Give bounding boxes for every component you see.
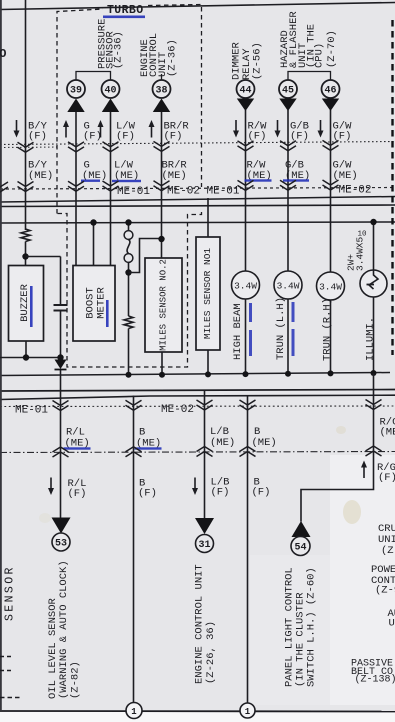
flow arrow down R/W — [233, 120, 239, 138]
label B (F) right — [252, 477, 271, 499]
buzzer box — [9, 266, 44, 342]
svg-text:TRUN (L.H): TRUN (L.H) — [275, 297, 287, 360]
svg-text:45: 45 — [282, 86, 294, 97]
chevron R/L sheet — [53, 447, 69, 457]
TURBO dashed enclosure — [57, 5, 202, 368]
dotted harness boundary lower — [0, 405, 395, 408]
svg-text:38: 38 — [155, 86, 167, 97]
arrowhead down to 31 — [195, 518, 214, 534]
svg-text:(Z-56): (Z-56) — [252, 42, 264, 80]
svg-text:SENSOR: SENSOR — [4, 565, 17, 621]
label BOOST METER — [85, 287, 108, 319]
svg-text:ME-01: ME-01 — [117, 186, 150, 198]
label L/B (F) — [211, 477, 230, 499]
chevron R/G sheet — [366, 446, 382, 456]
wire BR/R vertical — [161, 110, 163, 258]
pressure sensor bracket — [76, 72, 111, 81]
label G (ME) — [82, 160, 107, 183]
svg-text:ILLUMI.: ILLUMI. — [364, 317, 376, 361]
arrowhead up to 54 — [292, 521, 311, 537]
chevron B-left sheet — [126, 447, 142, 457]
label R/W (F) — [248, 121, 268, 143]
svg-text:(ME): (ME) — [252, 437, 277, 449]
svg-text:TO: TO — [0, 47, 6, 61]
resistor R2 — [124, 316, 133, 328]
node turn rh bus junction — [328, 370, 334, 376]
svg-text:(F): (F) — [378, 472, 395, 484]
svg-text:31: 31 — [198, 540, 210, 551]
boost meter box — [73, 266, 115, 342]
connector circle 38 — [153, 80, 171, 98]
wire buzzer bottom lead — [25, 341, 27, 358]
ECU stub — [161, 74, 163, 80]
capacitor C — [54, 304, 68, 306]
dashed harness boundary ME-01/ME-02 top — [0, 188, 395, 190]
arrowhead down G/B — [279, 99, 296, 112]
right dashed page-joint line — [391, 20, 393, 355]
label R/L (ME) — [65, 427, 90, 450]
flow arrow up R/G — [361, 461, 367, 479]
chevron BR/R at harness boundary — [154, 181, 170, 191]
label HAZARD & FLASHER UNIT (IN THE CPU) (Z-70) — [279, 11, 338, 68]
label G (F) — [83, 121, 102, 143]
svg-text:(F): (F) — [164, 131, 183, 143]
wire R/G vertical and bend — [301, 373, 374, 522]
svg-text:54: 54 — [294, 543, 306, 554]
chevron left edge at harness boundary — [0, 182, 8, 192]
hazard unit bracket — [288, 72, 331, 81]
left page edge line — [0, 0, 2, 711]
connector circle 44 — [237, 80, 255, 98]
svg-text:(WARNING & AUTO CLOCK): (WARNING & AUTO CLOCK) — [58, 560, 70, 699]
label OIL LEVEL SENSOR (WARNING & AUTO CLOCK) (Z-82) — [47, 560, 82, 699]
node switch feed on L3 — [125, 219, 131, 225]
miles sensor no.2 box — [145, 258, 182, 352]
svg-text:(Z-36): (Z-36) — [113, 31, 125, 69]
svg-text:3.4WX5: 3.4WX5 — [355, 236, 366, 271]
label BR/R (ME) — [162, 160, 188, 183]
label ENGINE CONTROL UNIT (Z-26, 36) — [194, 564, 218, 684]
label B/Y (F) — [28, 121, 48, 143]
svg-text:ENGINE CONTROL UNIT: ENGINE CONTROL UNIT — [194, 564, 206, 684]
svg-text:(F): (F) — [333, 131, 352, 143]
svg-text:(F): (F) — [248, 131, 267, 143]
label PANEL LIGHT CONTROL (IN THE CLUSTER SWITCH L.H.) (Z-60) — [284, 567, 318, 687]
label L/B (ME) — [210, 426, 235, 449]
blue underline BUZZER — [30, 286, 33, 327]
svg-text:METER: METER — [96, 287, 108, 319]
label B/Y (ME) — [28, 160, 53, 183]
wire sensor switch drop — [128, 223, 130, 231]
label PRESSURE SENSOR (Z-36) — [97, 19, 125, 69]
svg-text:(ME): (ME) — [28, 170, 53, 182]
svg-text:1: 1 — [245, 707, 251, 717]
node resistor bus junction — [126, 372, 132, 378]
svg-text:ME-01: ME-01 — [15, 405, 48, 417]
connector circle 40 — [102, 80, 120, 98]
blue underline L/W (ME) — [112, 180, 141, 182]
wire buzzer feed lower — [25, 242, 27, 266]
svg-text:(F): (F) — [211, 487, 230, 499]
arrowhead down G/W — [322, 99, 339, 112]
flow arrow down G/B — [275, 120, 281, 138]
wire capacitor top lead — [60, 257, 62, 305]
svg-text:3.4W: 3.4W — [234, 281, 257, 292]
wire G/B vertical — [287, 110, 289, 271]
svg-text:ME-02: ME-02 — [161, 404, 194, 416]
node switch bypass junction — [125, 269, 131, 275]
svg-text:(ME): (ME) — [210, 437, 235, 449]
arrowhead up G — [67, 99, 84, 113]
label DIMMER RELAY (Z-56) — [231, 41, 264, 80]
wire turn rh lamp to bus — [330, 300, 332, 373]
chevron R/W at F/ME boundary — [238, 141, 254, 151]
blue underline R/L (ME) — [64, 447, 91, 449]
svg-text:44: 44 — [239, 86, 251, 97]
svg-text:MILES SENSOR NO.2: MILES SENSOR NO.2 — [159, 259, 169, 351]
svg-text:(ME): (ME) — [333, 170, 358, 182]
wire high beam lamp to bus — [245, 299, 247, 374]
label G/B (ME) — [285, 160, 310, 183]
switch terminal bottom — [124, 254, 133, 263]
chevron R/G harness — [366, 400, 382, 410]
lamp ILLUMINATION — [360, 270, 387, 297]
node bypass to BR/R — [158, 236, 164, 242]
svg-text:SWITCH L.H.) (Z-60): SWITCH L.H.) (Z-60) — [306, 567, 318, 687]
blue underline B (ME) — [135, 447, 162, 449]
wire turn lh lamp to bus — [287, 299, 289, 374]
wire boost meter center feed — [93, 223, 95, 266]
top border line — [0, 3, 395, 10]
dash-dot boundary lower — [0, 452, 395, 453]
chevron B-right harness — [240, 400, 256, 410]
chevron L/B harness — [197, 400, 213, 410]
blue underline G (ME) — [81, 180, 100, 182]
wire B left vertical — [133, 396, 135, 704]
svg-text:BUZZER: BUZZER — [19, 283, 31, 322]
wire G/W vertical — [330, 110, 332, 272]
connector circle 46 — [322, 80, 340, 98]
lamp TURN LH 3.4W — [274, 271, 302, 299]
wire B right vertical — [247, 396, 249, 704]
wire L/B vertical — [204, 390, 206, 518]
connector circle 39 — [67, 80, 85, 98]
svg-text:ME-02: ME-02 — [339, 185, 372, 197]
label L/W (F) — [116, 121, 136, 143]
svg-text:(F): (F) — [83, 131, 102, 143]
flow arrow up L/W — [98, 120, 104, 138]
arrowhead up BR/R — [153, 99, 170, 113]
svg-text:(F): (F) — [28, 131, 47, 143]
wire capacitor bottom lead — [60, 311, 62, 358]
blue underline G/B (ME) — [283, 179, 309, 181]
svg-text:(F): (F) — [138, 488, 157, 500]
node miles no1 bus junction — [205, 371, 211, 377]
blue marks turn lh — [292, 302, 295, 322]
diode D — [55, 360, 67, 370]
connector circle 53 — [52, 533, 70, 551]
flow arrow down G/W — [318, 120, 324, 138]
blue underline TURBO — [103, 16, 145, 19]
horizontal bus line L1 — [0, 197, 395, 203]
label G/W (F) — [333, 121, 353, 143]
blue marks high beam — [249, 303, 252, 322]
svg-text:(F): (F) — [252, 487, 271, 499]
svg-text:(Z-70): (Z-70) — [326, 30, 338, 68]
node boost feed on L3 — [90, 219, 96, 225]
svg-text:10: 10 — [358, 231, 368, 239]
svg-text:CPU): CPU) — [313, 43, 325, 68]
chevron R/L harness — [53, 401, 69, 411]
ground circle 1 right — [240, 703, 255, 718]
node illumination feed on L3 — [370, 219, 376, 225]
label ENGINE CONTROL UNIT (Z-36) — [139, 33, 179, 77]
chevron G/W at harness boundary — [323, 180, 339, 190]
wire link to capacitor — [26, 256, 61, 258]
svg-text:(ME): (ME) — [162, 170, 187, 182]
arrowhead down R/W — [237, 99, 254, 112]
wire R/W vertical — [245, 110, 247, 271]
label B (F) left — [138, 478, 157, 500]
blue underline R/W (ME) — [245, 179, 272, 181]
svg-text:39: 39 — [70, 86, 82, 97]
svg-text:(Z-138): (Z-138) — [355, 674, 395, 686]
svg-text:40: 40 — [104, 86, 116, 97]
label A U (cut) — [388, 608, 395, 630]
label POWER CONTROL (cut) — [371, 564, 395, 597]
svg-text:46: 46 — [324, 86, 336, 97]
flow arrow up G — [63, 120, 69, 138]
chevron B-left harness — [126, 400, 142, 410]
svg-text:(F): (F) — [290, 131, 309, 143]
label 2W+ 3.4WX5 — [346, 236, 366, 271]
horizontal line L5 — [0, 395, 395, 399]
chevron B-right sheet — [240, 447, 256, 457]
label G/W (ME) — [333, 160, 358, 183]
chevron L/W at F/ME boundary — [103, 142, 119, 152]
label CRUISE UNIT (cut) — [378, 523, 395, 557]
label L/W (ME) — [114, 160, 139, 183]
dotted sheet boundary (F/ME) top — [0, 142, 395, 145]
ground circle 1 left — [126, 703, 142, 719]
node buzzer/cap junction — [22, 253, 28, 259]
label PASSIVE BELT CO (Z-138) (cut) — [351, 659, 395, 686]
chevron L/B sheet — [197, 447, 213, 457]
flow arrow down R/L — [48, 478, 54, 496]
ground bus line — [0, 373, 390, 376]
wire miles no.2 bottom lead — [161, 352, 163, 375]
wire miles no1 top feed — [207, 198, 209, 237]
switch blade — [127, 240, 130, 254]
paper stains — [343, 500, 361, 524]
wire resistor to bus — [128, 329, 130, 375]
connector circle 45 — [279, 80, 297, 98]
node turn lh bus junction — [285, 371, 291, 377]
svg-text:UL: UL — [389, 618, 395, 630]
svg-text:3.4W: 3.4W — [319, 282, 342, 293]
chevron G/B at harness boundary — [280, 180, 296, 190]
wire miles no1 bottom lead — [207, 350, 209, 374]
horizontal bus line L2 — [0, 205, 395, 207]
svg-text:(Z-36): (Z-36) — [167, 39, 179, 77]
chevron G/W at F/ME boundary — [323, 140, 339, 150]
svg-text:(Z-9: (Z-9 — [375, 585, 395, 597]
miles sensor no1 box — [196, 237, 220, 350]
arrowhead up L/W — [102, 99, 119, 113]
lamp HIGH BEAM 3.4W — [232, 271, 260, 299]
connector circle 31 — [196, 535, 214, 553]
wire L/W vertical — [110, 110, 112, 266]
svg-text:TURBO: TURBO — [107, 4, 144, 17]
chevron B/Y at harness boundary — [18, 182, 34, 192]
label B (ME) right — [252, 426, 277, 449]
label R/G (F) — [377, 462, 395, 484]
horizontal bus line L3 — [0, 222, 395, 223]
svg-text:53: 53 — [55, 539, 67, 550]
svg-text:(Z-: (Z- — [381, 545, 395, 557]
flow arrow down L/B — [192, 478, 198, 496]
svg-text:ME-01: ME-01 — [207, 186, 240, 198]
svg-text:1: 1 — [131, 707, 137, 717]
resistor R (buzzer feed) — [21, 229, 30, 241]
label G/B (F) — [290, 121, 309, 143]
chevron G at harness boundary — [68, 181, 84, 191]
svg-text:HIGH BEAM: HIGH BEAM — [232, 303, 244, 360]
blue underline METER — [106, 300, 109, 327]
horizontal line L4 — [0, 390, 395, 392]
wire B/Y vertical — [25, 0, 27, 230]
svg-text:(Z-26, 36): (Z-26, 36) — [205, 621, 217, 684]
lamp TURN RH 3.4W — [317, 272, 345, 300]
svg-text:ME-02: ME-02 — [167, 186, 200, 198]
wire below switch — [128, 262, 130, 316]
chevron BR/R at F/ME boundary — [154, 141, 170, 151]
wire bypass jog — [129, 239, 162, 273]
label R/G (ME) — [380, 417, 395, 439]
svg-text:TRUN (R.H): TRUN (R.H) — [321, 298, 333, 361]
wire G vertical — [75, 110, 77, 266]
chevron R/W at harness boundary — [238, 180, 254, 190]
label R/L (F) — [68, 478, 87, 500]
wire illumination lamp feed — [373, 222, 375, 270]
arrowhead down to 53 — [52, 518, 71, 534]
left-bottom dashed corner marks — [0, 656, 14, 658]
svg-text:3.4W: 3.4W — [277, 281, 300, 292]
svg-text:(ME: (ME — [380, 427, 395, 439]
node buzzer bottom junction — [23, 354, 29, 360]
bottom ground line — [0, 710, 395, 713]
wire R/L vertical — [60, 370, 62, 518]
svg-text:MILES SENSOR NO1: MILES SENSOR NO1 — [202, 248, 213, 340]
switch terminal top — [124, 231, 133, 240]
node high beam bus junction — [243, 371, 249, 377]
node miles no.2 bus junction — [159, 372, 165, 378]
node illumination bus junction — [371, 370, 377, 376]
flow arrow down B/Y — [14, 120, 20, 138]
chevron L/W at harness boundary — [103, 181, 119, 191]
connector circle 54 — [291, 537, 310, 556]
flow arrow up BR/R — [149, 120, 155, 138]
svg-text:(Z-82): (Z-82) — [70, 661, 82, 699]
chevron B/Y at F/ME boundary — [18, 142, 34, 152]
chevron G/B at F/ME boundary — [280, 141, 296, 151]
label B (ME) left — [136, 427, 161, 450]
wire illumination lamp to bus — [373, 297, 375, 373]
node diode anode junction — [57, 354, 63, 360]
svg-text:(F): (F) — [116, 131, 135, 143]
label R/W (ME) — [247, 160, 272, 183]
chevron G at F/ME boundary — [68, 142, 84, 152]
label BR/R (F) — [164, 121, 190, 143]
wire off-page link left — [0, 357, 61, 359]
svg-text:(F): (F) — [68, 488, 87, 500]
